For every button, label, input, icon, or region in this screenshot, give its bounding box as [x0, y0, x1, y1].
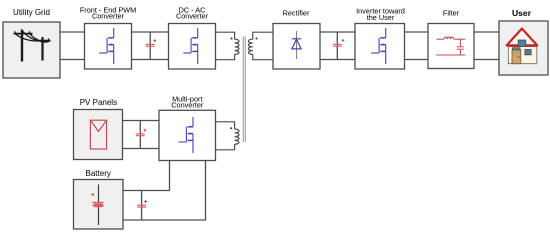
- block DC - AC Converter: [169, 24, 216, 70]
- transformer T1 secondary winding: [248, 32, 273, 60]
- transformer T1 tertiary winding: [216, 122, 240, 150]
- svg-text:Converter: Converter: [171, 101, 204, 110]
- capacitor C3: [136, 121, 146, 149]
- block Multi-port Converter: [159, 110, 216, 160]
- house icon: [507, 29, 538, 64]
- svg-text:Converter: Converter: [92, 12, 125, 21]
- wire grid to front-end top: [60, 31, 85, 33]
- capacitor C5 filter shunt: [457, 39, 464, 55]
- svg-text:User: User: [512, 8, 532, 18]
- wire inverter to filter bottom: [405, 59, 429, 61]
- block PV Panels: [74, 110, 123, 160]
- wire pv to multiport top: [123, 120, 160, 122]
- wire filter to user bottom: [474, 59, 500, 61]
- diode D1: [292, 31, 301, 59]
- block Front-End PWM Converter: [85, 24, 132, 70]
- block Filter: [428, 24, 474, 69]
- capacitor C1: [146, 32, 156, 60]
- svg-text:the User: the User: [367, 13, 395, 22]
- transformer T1 core: [243, 36, 245, 142]
- svg-text:Rectifier: Rectifier: [283, 9, 310, 18]
- node dot primary: [231, 38, 233, 40]
- wire battery to multiport top: [123, 160, 170, 190]
- wire filter bottom rail: [436, 54, 465, 56]
- wire front-end to dc-ac bottom: [132, 59, 169, 61]
- svg-text:Battery: Battery: [86, 169, 111, 178]
- capacitor C2: [333, 32, 345, 60]
- MOSFET Q2: [183, 28, 197, 64]
- wire front-end to dc-ac top: [132, 31, 169, 33]
- block Inverter toward the User: [355, 24, 405, 70]
- MOSFET Q1: [99, 28, 113, 64]
- MOSFET Q3: [371, 28, 385, 64]
- block Utility Grid: [3, 22, 60, 78]
- block Rectifier: [273, 24, 320, 70]
- svg-text:Utility Grid: Utility Grid: [13, 8, 50, 17]
- capacitor C4: [137, 191, 147, 221]
- svg-text:Filter: Filter: [443, 9, 460, 18]
- transformer T1 primary winding: [216, 32, 240, 60]
- node dot tertiary: [230, 127, 232, 129]
- wire grid to front-end bottom: [60, 59, 85, 61]
- MOSFET Q4: [179, 117, 193, 153]
- wire rectifier to inverter top: [320, 31, 355, 33]
- block User: [499, 21, 548, 75]
- svg-text:PV Panels: PV Panels: [80, 98, 117, 107]
- svg-text:Converter: Converter: [176, 12, 209, 21]
- wire filter to user top: [474, 31, 500, 33]
- inductor L1: [437, 37, 466, 39]
- wire battery to multiport bottom: [123, 160, 206, 220]
- wire inverter to filter top: [405, 31, 429, 33]
- block Battery: [74, 180, 124, 230]
- PV panel symbol: [90, 120, 106, 149]
- node dot secondary: [256, 38, 258, 40]
- battery B1: [91, 185, 104, 226]
- wire rectifier to inverter bottom: [320, 59, 355, 61]
- wire pv to multiport bottom: [123, 148, 160, 150]
- utility pole icon: [14, 30, 51, 62]
